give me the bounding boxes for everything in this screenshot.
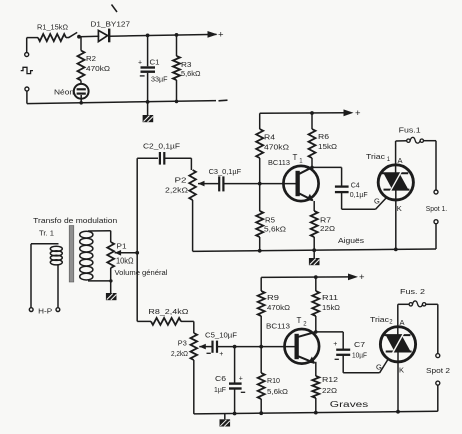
svg-text:T: T xyxy=(293,153,298,162)
svg-text:1µF: 1µF xyxy=(214,385,227,394)
svg-text:H-P: H-P xyxy=(38,307,52,316)
svg-text:K: K xyxy=(397,204,402,213)
svg-text:Tr. 1: Tr. 1 xyxy=(39,229,54,238)
svg-text:A: A xyxy=(398,156,403,165)
svg-text:R8_2,4kΩ: R8_2,4kΩ xyxy=(148,307,189,316)
svg-text:C4: C4 xyxy=(351,181,360,190)
svg-text:15kΩ: 15kΩ xyxy=(322,303,340,312)
svg-text:R12: R12 xyxy=(322,375,338,384)
svg-text:+: + xyxy=(219,351,223,358)
svg-text:R11: R11 xyxy=(322,293,338,302)
svg-text:Graves: Graves xyxy=(330,400,369,409)
svg-text:C2_0,1µF: C2_0,1µF xyxy=(143,142,181,151)
svg-text:C5_10µF: C5_10µF xyxy=(205,331,238,340)
svg-text:470kΩ: 470kΩ xyxy=(267,303,290,312)
svg-text:P2: P2 xyxy=(175,176,187,185)
svg-text:+: + xyxy=(333,341,337,348)
svg-text:5,6kΩ: 5,6kΩ xyxy=(264,225,286,234)
svg-text:BC113: BC113 xyxy=(268,158,290,167)
svg-text:+: + xyxy=(355,108,361,119)
svg-text:2,2kΩ: 2,2kΩ xyxy=(165,186,189,195)
svg-text:+: + xyxy=(239,376,243,383)
svg-text:R1_15kΩ: R1_15kΩ xyxy=(37,23,69,32)
svg-text:Fus. 2: Fus. 2 xyxy=(400,287,425,296)
svg-text:R6: R6 xyxy=(318,132,329,141)
svg-text:33µF: 33µF xyxy=(151,75,168,84)
svg-text:Triac: Triac xyxy=(370,315,389,324)
svg-text:R3: R3 xyxy=(181,60,192,69)
svg-text:0,1µF: 0,1µF xyxy=(350,190,369,199)
svg-text:P1: P1 xyxy=(117,242,127,251)
svg-text:470kΩ: 470kΩ xyxy=(264,143,289,152)
svg-text:R2: R2 xyxy=(86,54,96,63)
svg-text:K: K xyxy=(399,366,404,375)
svg-text:+: + xyxy=(218,30,224,41)
svg-text:2,2kΩ: 2,2kΩ xyxy=(171,349,189,358)
svg-text:+: + xyxy=(138,60,142,67)
svg-text:R9: R9 xyxy=(267,293,279,302)
svg-text:Spot 2: Spot 2 xyxy=(426,366,450,375)
svg-text:C1: C1 xyxy=(150,58,160,67)
svg-text:5,6kΩ: 5,6kΩ xyxy=(267,387,288,396)
svg-text:10µF: 10µF xyxy=(352,351,368,360)
svg-text:C6: C6 xyxy=(215,374,226,383)
svg-text:G: G xyxy=(376,363,382,372)
svg-text:Fus.1: Fus.1 xyxy=(399,126,421,135)
svg-text:Spot 1.: Spot 1. xyxy=(426,204,448,213)
svg-text:470kΩ: 470kΩ xyxy=(86,64,110,73)
svg-text:5,6kΩ: 5,6kΩ xyxy=(181,69,201,78)
svg-text:T: T xyxy=(297,316,302,325)
svg-text:A: A xyxy=(400,318,405,327)
svg-text:15kΩ: 15kΩ xyxy=(318,142,337,151)
svg-text:D1_BY127: D1_BY127 xyxy=(91,20,131,29)
svg-text:Volume général: Volume général xyxy=(115,270,168,277)
svg-text:Néon: Néon xyxy=(54,88,74,97)
svg-text:10kΩ: 10kΩ xyxy=(116,257,134,266)
svg-text:Triac: Triac xyxy=(366,152,385,161)
svg-text:G: G xyxy=(374,197,380,206)
svg-text:R4: R4 xyxy=(264,133,275,142)
svg-text:P3: P3 xyxy=(178,339,187,348)
svg-text:C3_0,1µF: C3_0,1µF xyxy=(209,167,242,176)
svg-text:+: + xyxy=(359,272,365,283)
svg-text:22Ω: 22Ω xyxy=(322,386,337,395)
svg-text:R5: R5 xyxy=(265,216,275,225)
svg-text:R10: R10 xyxy=(267,376,280,385)
svg-text:BC113: BC113 xyxy=(266,322,290,331)
svg-text:Transfo de modulation: Transfo de modulation xyxy=(33,216,117,225)
svg-text:Aiguës: Aiguës xyxy=(338,236,364,245)
svg-text:C7: C7 xyxy=(354,340,365,349)
svg-text:22Ω: 22Ω xyxy=(320,224,335,233)
